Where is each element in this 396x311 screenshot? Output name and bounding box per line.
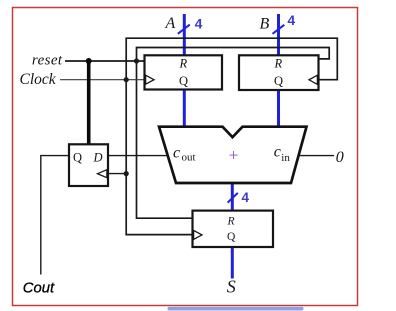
bus S output [231, 247, 234, 279]
register A (R, Q) [145, 55, 223, 89]
svg-text:4: 4 [195, 16, 203, 32]
junction clock tap to carry flip-flop [124, 171, 129, 176]
svg-text:Clock: Clock [20, 71, 57, 88]
svg-text:Q: Q [227, 231, 236, 243]
svg-text:0: 0 [336, 149, 344, 166]
wire reset input [65, 60, 145, 62]
svg-text:Cout: Cout [23, 280, 55, 296]
register B (R, Q) [239, 55, 319, 90]
adder (c_out + c_in) [159, 127, 307, 183]
carry flip-flop (Q, D) [69, 144, 108, 186]
bus B upper segment [277, 14, 280, 56]
junction Clock/vertical [124, 77, 129, 82]
svg-text:4: 4 [242, 190, 250, 205]
svg-text:A: A [165, 15, 176, 32]
wire clock to carry flip-flop [108, 173, 126, 175]
svg-text:S: S [227, 277, 236, 297]
bus B (4-bit) [277, 90, 280, 127]
wire reset distribution loop (top) [137, 48, 330, 219]
junction reset/vertical [134, 58, 139, 63]
bottom partial blue bar [168, 307, 304, 311]
wire Q output to Cout [41, 156, 69, 275]
svg-text:B: B [260, 16, 270, 33]
wire carry-out to D input [108, 155, 169, 157]
bus sum (adder to register) [231, 184, 234, 211]
svg-text:4: 4 [287, 12, 295, 28]
svg-text:R: R [227, 215, 235, 227]
wire reset stub to carry flip-flop (thick) [87, 61, 91, 145]
svg-text:c: c [274, 144, 281, 161]
bus A width slash [178, 25, 190, 34]
svg-text:out: out [182, 152, 196, 164]
svg-text:D: D [93, 150, 103, 164]
wire clock distribution loop (top) [126, 38, 337, 234]
svg-text:c: c [173, 144, 180, 161]
junction reset/stub [86, 58, 92, 64]
svg-text:reset: reset [32, 52, 63, 68]
bus A upper segment [183, 14, 186, 56]
svg-text:Q: Q [73, 150, 82, 164]
register S (R, Q) [193, 211, 274, 247]
wire Clock input [60, 79, 145, 81]
wire carry-in from 0 [298, 155, 334, 157]
bus A (4-bit) [183, 90, 186, 127]
svg-text:in: in [281, 152, 290, 164]
svg-text:Q: Q [179, 74, 188, 88]
svg-text:R: R [274, 56, 283, 70]
svg-text:Q: Q [274, 74, 283, 88]
svg-text:R: R [179, 56, 188, 70]
bus B width slash [273, 25, 285, 34]
svg-text:+: + [229, 146, 239, 165]
bus sum width slash [228, 193, 238, 203]
